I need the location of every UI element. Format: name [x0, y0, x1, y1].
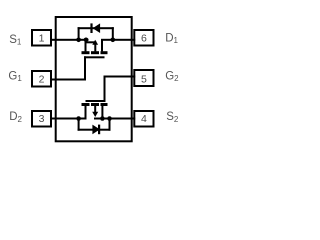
diode D2a triangle — [92, 125, 100, 135]
transistor Q2 channel segment drain — [82, 103, 90, 106]
transistor Q2 channel segment source — [101, 103, 108, 106]
transistor Q2 body stub — [94, 106, 96, 113]
wire pin2 stub — [51, 79, 57, 81]
pin 3 box — [32, 111, 51, 127]
pin 4 box — [134, 111, 153, 127]
wire diode branch right vertical Q1 — [112, 27, 114, 40]
transistor Q2 gate line — [86, 100, 106, 102]
wire pin6 stub — [131, 39, 136, 41]
transistor Q1 source stub — [85, 40, 87, 52]
transistor Q2 source stub — [101, 106, 103, 119]
svg-text:1: 1 — [39, 32, 45, 44]
wire pin3 stub — [51, 118, 57, 120]
transistor Q2 drain stub — [85, 106, 87, 120]
pin 5 box — [134, 70, 153, 86]
node junction S1/source stub — [84, 38, 89, 43]
node junction S2/source stub — [100, 116, 105, 121]
svg-text:3: 3 — [39, 113, 45, 125]
node junction S1/diode D1a — [76, 38, 81, 43]
transistor Q1 channel segment body — [91, 51, 99, 54]
transistor Q1 body stub — [94, 44, 96, 51]
transistor Q1 channel segment drain — [101, 51, 108, 54]
wire S2 to pin4 — [94, 118, 131, 120]
svg-text:4: 4 — [141, 113, 147, 125]
transistor Q2 body arrow (P-channel) — [92, 112, 98, 117]
package outline U1 — [56, 17, 132, 141]
diode D1a cathode bar — [90, 23, 92, 33]
wire S1 to Q1 source — [56, 39, 89, 41]
pin 2 box — [32, 71, 51, 87]
wire G2 horizontal from pin5 — [104, 76, 131, 78]
wire diode rail bottom Q2 — [78, 129, 111, 131]
transistor Q1 drain stub — [101, 40, 103, 52]
wire G1 horizontal to pin2 — [56, 79, 86, 81]
wire diode branch right vertical Q2 — [109, 119, 111, 131]
transistor Q1 body arrow (P-channel) — [92, 40, 98, 45]
node junction D2/diode D2a — [76, 116, 81, 121]
wire pin5 stub — [131, 76, 136, 78]
diode D1a triangle — [93, 23, 101, 33]
wire Q1 gate vertical — [84, 56, 86, 80]
diode D2a cathode bar — [98, 125, 100, 135]
wire D2 to Q2 drain — [56, 118, 87, 120]
svg-text:6: 6 — [141, 32, 147, 44]
node junction S2/diode — [107, 116, 112, 121]
transistor Q2 channel segment body — [91, 103, 99, 106]
transistor Q1 gate line — [84, 56, 105, 58]
pin 1 box — [32, 30, 51, 46]
wire diode rail top Q1 — [78, 27, 114, 29]
svg-text:5: 5 — [141, 73, 147, 85]
wire pin4 stub — [131, 118, 136, 120]
svg-text:2: 2 — [39, 73, 45, 85]
transistor Q1 channel segment source — [82, 51, 90, 54]
wire diode branch left vertical Q2 — [78, 119, 80, 131]
wire Q2 gate vertical — [104, 76, 106, 103]
wire diode branch left vertical Q1 — [78, 27, 80, 40]
wire Q1 source-body link — [86, 41, 96, 43]
node junction D1 wire/diode — [111, 38, 116, 43]
wire Q1 drain to pin6 — [101, 39, 131, 41]
pin 6 box — [134, 30, 153, 46]
wire pin1 stub — [51, 39, 57, 41]
